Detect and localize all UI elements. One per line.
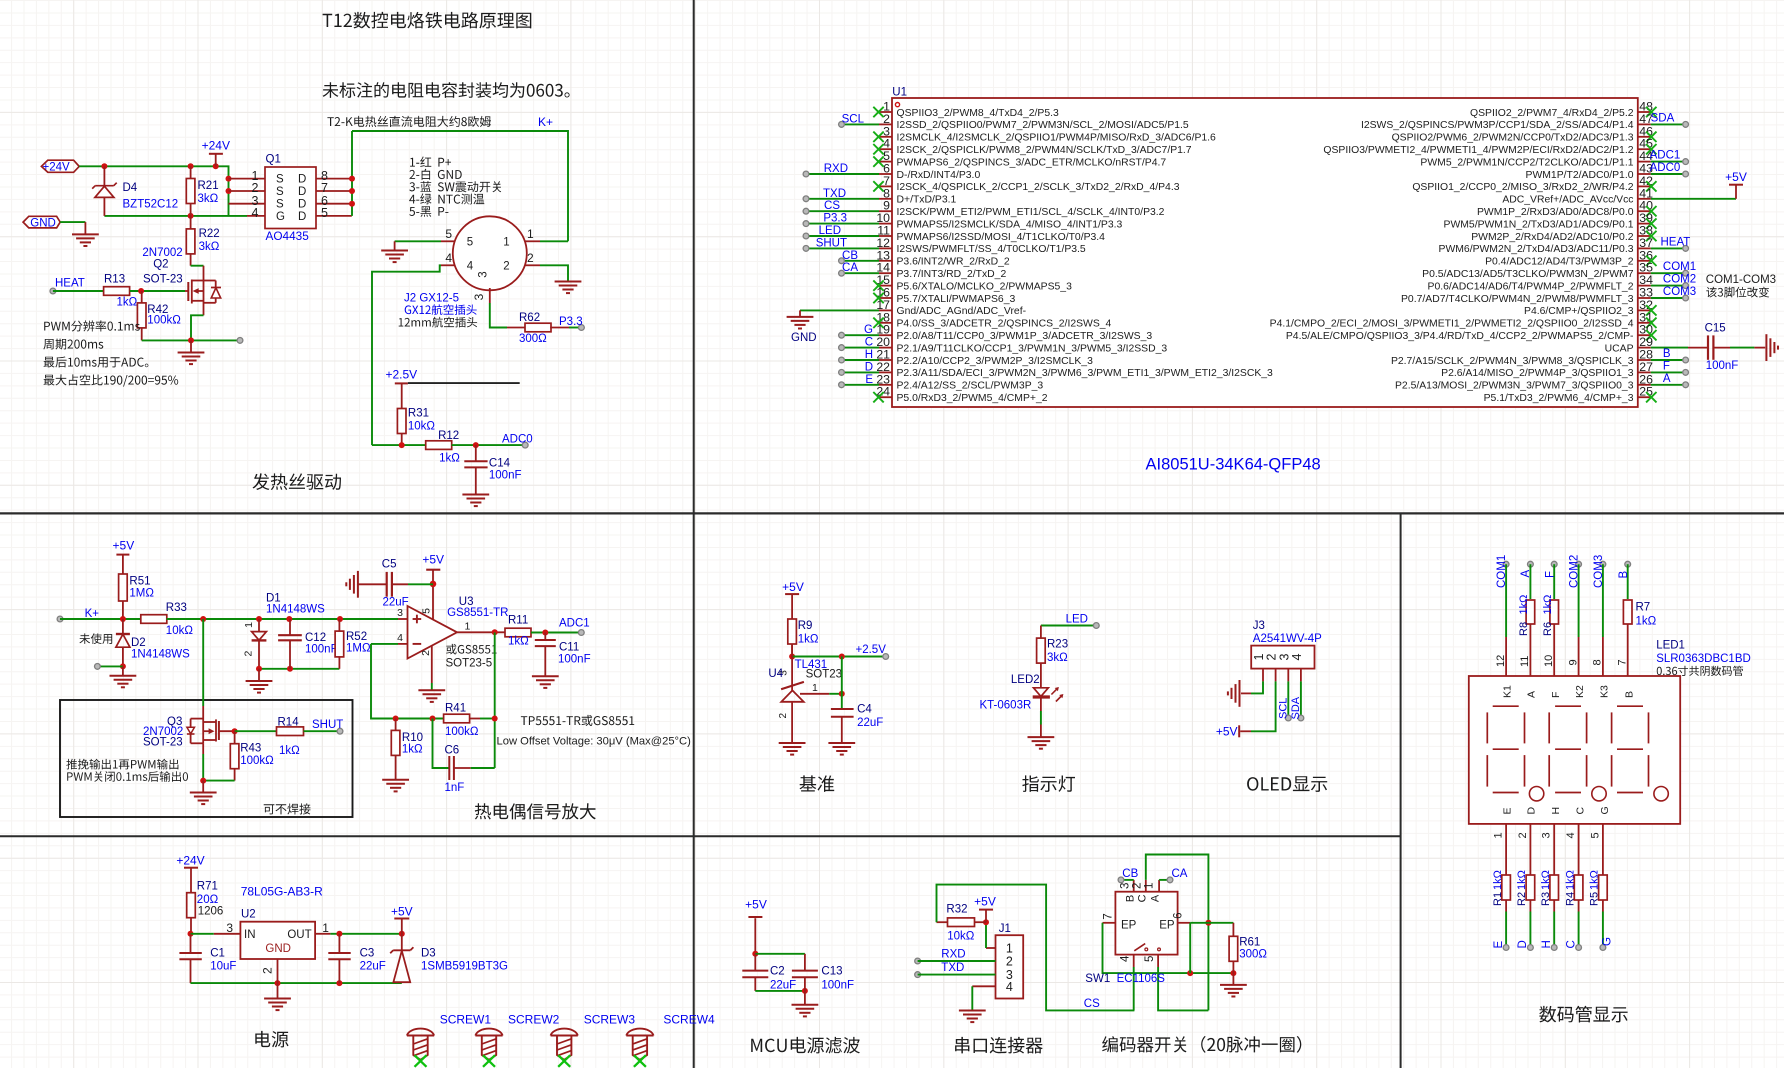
svg-text:D+/TxD/P3.1: D+/TxD/P3.1 xyxy=(897,195,957,206)
svg-text:B: B xyxy=(1623,691,1635,698)
svg-text:PWM6/PWM2N_2/TxD4/AD3/ADC11/P0: PWM6/PWM2N_2/TxD4/AD3/ADC11/P0.3 xyxy=(1439,244,1634,255)
svg-text:+24V: +24V xyxy=(202,139,230,153)
svg-text:R13: R13 xyxy=(104,274,125,286)
svg-text:C2: C2 xyxy=(770,966,785,978)
svg-text:D: D xyxy=(1526,807,1538,815)
svg-text:2: 2 xyxy=(1517,832,1529,838)
svg-text:100nF: 100nF xyxy=(489,470,522,482)
svg-text:SCREW3: SCREW3 xyxy=(584,1013,636,1027)
svg-text:SHUT: SHUT xyxy=(312,719,343,731)
svg-text:P4.6/CMP+/QSPIIO2_3: P4.6/CMP+/QSPIIO2_3 xyxy=(1524,306,1634,317)
svg-text:CB: CB xyxy=(842,250,858,262)
svg-text:Q1: Q1 xyxy=(266,154,281,166)
svg-text:3: 3 xyxy=(478,271,490,277)
svg-text:1kΩ: 1kΩ xyxy=(1564,870,1576,890)
svg-text:CA: CA xyxy=(1172,868,1188,880)
svg-text:D-/RxD/INT4/P3.0: D-/RxD/INT4/P3.0 xyxy=(897,170,981,181)
svg-text:LED1: LED1 xyxy=(1656,640,1685,652)
svg-text:P4.0/SS_3/ADCETR_2/QSPINCS_2/I: P4.0/SS_3/ADCETR_2/QSPINCS_2/I2SWS_4 xyxy=(897,319,1112,330)
svg-text:2: 2 xyxy=(503,261,509,273)
svg-text:3: 3 xyxy=(397,607,403,619)
svg-text:1kΩ: 1kΩ xyxy=(508,636,529,648)
svg-text:Gnd/ADC_AGnd/ADC_Vref-: Gnd/ADC_AGnd/ADC_Vref- xyxy=(897,306,1027,317)
svg-text:3kΩ: 3kΩ xyxy=(1047,652,1068,664)
svg-text:2: 2 xyxy=(527,251,534,265)
svg-text:R23: R23 xyxy=(1047,639,1068,651)
svg-text:C15: C15 xyxy=(1705,323,1726,335)
svg-text:CA: CA xyxy=(842,262,858,274)
svg-text:SCL: SCL xyxy=(842,113,865,125)
svg-text:+5V: +5V xyxy=(1725,170,1747,184)
svg-text:SOT23: SOT23 xyxy=(806,668,842,680)
svg-text:SLR0363DBC1BD: SLR0363DBC1BD xyxy=(1656,653,1751,665)
svg-text:R41: R41 xyxy=(445,703,466,715)
svg-text:P3.7/INT3/RD_2/TxD_2: P3.7/INT3/RD_2/TxD_2 xyxy=(897,269,1007,280)
svg-text:OUT: OUT xyxy=(287,929,311,941)
svg-text:R61: R61 xyxy=(1239,937,1260,949)
svg-text:R32: R32 xyxy=(946,904,967,916)
svg-text:78L05G-AB3-R: 78L05G-AB3-R xyxy=(241,885,323,899)
svg-text:R51: R51 xyxy=(129,576,150,588)
svg-text:P3.6/INT2/WR_2/RxD_2: P3.6/INT2/WR_2/RxD_2 xyxy=(897,257,1010,268)
svg-text:SOT23-5: SOT23-5 xyxy=(446,658,493,670)
svg-text:F: F xyxy=(1544,571,1556,578)
svg-text:P3.3: P3.3 xyxy=(559,316,583,328)
svg-text:K1: K1 xyxy=(1501,685,1513,698)
svg-text:1: 1 xyxy=(812,682,818,694)
svg-text:COM1: COM1 xyxy=(1496,555,1508,588)
svg-text:D: D xyxy=(298,199,306,211)
svg-text:COM2: COM2 xyxy=(1663,274,1696,286)
svg-text:11: 11 xyxy=(1519,656,1531,667)
svg-text:3: 3 xyxy=(1120,883,1132,889)
svg-text:R10: R10 xyxy=(402,732,423,744)
svg-text:COM1-COM3: COM1-COM3 xyxy=(1706,274,1776,286)
svg-text:+24V: +24V xyxy=(43,161,71,173)
svg-text:CS: CS xyxy=(824,200,840,212)
svg-text:4: 4 xyxy=(467,261,474,273)
svg-text:D: D xyxy=(1517,940,1529,948)
svg-text:G: G xyxy=(864,324,873,336)
svg-text:22uF: 22uF xyxy=(770,980,796,992)
svg-text:HEAT: HEAT xyxy=(1661,236,1691,248)
svg-text:12: 12 xyxy=(1495,655,1507,667)
svg-text:100nF: 100nF xyxy=(305,644,338,656)
svg-text:COM1: COM1 xyxy=(1663,261,1696,273)
svg-text:QSPIIO3/PWMETI2_4/PWMETI1_4/PW: QSPIIO3/PWMETI2_4/PWMETI1_4/PWM2P/ECI/Rx… xyxy=(1323,145,1633,156)
svg-text:LED2: LED2 xyxy=(1011,674,1040,686)
svg-text:R2: R2 xyxy=(1516,892,1528,906)
svg-text:+5V: +5V xyxy=(782,580,804,594)
svg-text:+5V: +5V xyxy=(1216,724,1238,738)
svg-text:C11: C11 xyxy=(559,642,579,654)
svg-text:E: E xyxy=(1502,807,1514,814)
svg-text:C14: C14 xyxy=(489,458,511,470)
svg-text:SCREW1: SCREW1 xyxy=(440,1013,492,1027)
svg-text:GS8551-TR: GS8551-TR xyxy=(447,607,508,619)
svg-text:3kΩ: 3kΩ xyxy=(198,193,219,205)
svg-text:5: 5 xyxy=(467,237,473,249)
svg-text:E: E xyxy=(865,374,873,386)
svg-text:BZT52C12: BZT52C12 xyxy=(123,199,179,211)
svg-text:P2.7/A15/SCLK_2/PWM4N_3/PWM8_3: P2.7/A15/SCLK_2/PWM4N_3/PWM8_3/QSPICLK_3 xyxy=(1391,356,1634,367)
svg-text:10: 10 xyxy=(1543,655,1555,667)
svg-text:TXD: TXD xyxy=(823,188,846,200)
svg-text:+5V: +5V xyxy=(391,904,413,918)
svg-text:COM3: COM3 xyxy=(1593,555,1605,588)
svg-text:PWMAPS6_2/QSPINCS_3/ADC_ETR/MC: PWMAPS6_2/QSPINCS_3/ADC_ETR/MCLKO/nRST/P… xyxy=(897,157,1167,168)
svg-text:F: F xyxy=(1663,360,1670,372)
svg-text:1SMB5919BT3G: 1SMB5919BT3G xyxy=(421,961,508,973)
svg-text:+5V: +5V xyxy=(422,553,444,567)
svg-text:E: E xyxy=(1493,941,1505,949)
svg-text:R22: R22 xyxy=(199,228,220,240)
svg-text:3kΩ: 3kΩ xyxy=(199,241,220,253)
svg-text:SCREW2: SCREW2 xyxy=(508,1013,560,1027)
svg-text:1kΩ: 1kΩ xyxy=(1516,870,1528,890)
svg-text:R43: R43 xyxy=(240,743,261,755)
svg-text:R31: R31 xyxy=(408,407,429,419)
svg-text:300Ω: 300Ω xyxy=(519,333,547,345)
svg-text:A: A xyxy=(1525,691,1537,698)
svg-text:D3: D3 xyxy=(421,948,436,960)
svg-text:GND: GND xyxy=(791,332,817,344)
svg-text:1nF: 1nF xyxy=(445,782,465,794)
svg-text:PWM5/PWM1N_2/TxD3/AD1/ADC9/P0.: PWM5/PWM1N_2/TxD3/AD1/ADC9/P0.1 xyxy=(1444,219,1634,230)
svg-text:H: H xyxy=(865,349,873,361)
svg-text:P4.1/CMPO_2/ECI_2/MOSI_3/PWMET: P4.1/CMPO_2/ECI_2/MOSI_3/PWMETI1_2/PWMET… xyxy=(1270,319,1634,330)
svg-text:1: 1 xyxy=(322,921,329,935)
svg-text:4: 4 xyxy=(1120,955,1132,962)
svg-text:D: D xyxy=(298,211,306,223)
svg-text:3: 3 xyxy=(472,293,486,300)
svg-text:1kΩ: 1kΩ xyxy=(402,743,423,755)
svg-text:S: S xyxy=(276,174,284,186)
svg-text:5: 5 xyxy=(321,206,328,220)
svg-text:P0.6/ADC14/AD6/T4/PWM4P_2/PWMF: P0.6/ADC14/AD6/T4/PWM4P_2/PWMFLT_2 xyxy=(1428,281,1634,292)
svg-text:R9: R9 xyxy=(798,620,813,632)
svg-text:A: A xyxy=(1149,894,1161,902)
svg-text:R1: R1 xyxy=(1492,892,1504,906)
svg-text:G: G xyxy=(1602,937,1614,946)
svg-text:EP: EP xyxy=(1159,920,1175,932)
svg-text:8: 8 xyxy=(1592,659,1604,665)
svg-text:22uF: 22uF xyxy=(360,960,386,972)
svg-text:P2.4/A12/SS_2/SCL/PWM3P_3: P2.4/A12/SS_2/SCL/PWM3P_3 xyxy=(897,381,1044,392)
svg-text:J2 GX12-5: J2 GX12-5 xyxy=(404,293,459,305)
svg-text:P5.1/TxD3_2/PWM6_4/CMP+_3: P5.1/TxD3_2/PWM6_4/CMP+_3 xyxy=(1484,393,1634,404)
svg-text:22uF: 22uF xyxy=(857,717,883,729)
svg-text:C3: C3 xyxy=(360,948,375,960)
svg-text:1: 1 xyxy=(1493,832,1505,838)
svg-text:1: 1 xyxy=(1144,883,1156,889)
svg-text:AO4435: AO4435 xyxy=(266,229,310,243)
svg-text:SCREW4: SCREW4 xyxy=(663,1013,715,1027)
svg-text:D4: D4 xyxy=(123,182,138,194)
svg-text:PWMAPS6/I2SSD/MOSI_4/T1CLKO/T0: PWMAPS6/I2SSD/MOSI_4/T1CLKO/T0/P3.4 xyxy=(897,232,1106,243)
svg-text:D2: D2 xyxy=(131,637,146,649)
svg-text:1kΩ: 1kΩ xyxy=(1636,616,1657,628)
svg-text:I2SSD_2/QSPIIO0/PWM7_2/PWM3N/S: I2SSD_2/QSPIIO0/PWM7_2/PWM3N/SCL_2/MOSI/… xyxy=(897,120,1189,131)
svg-text:GND: GND xyxy=(265,943,291,955)
svg-text:PWM5_2/PWM1N/CCP2/T2CLKO/ADC1/: PWM5_2/PWM1N/CCP2/T2CLKO/ADC1/P1.1 xyxy=(1420,157,1633,168)
svg-text:3: 3 xyxy=(226,921,233,935)
svg-text:R14: R14 xyxy=(278,717,300,729)
svg-text:1: 1 xyxy=(243,622,255,628)
svg-text:C5: C5 xyxy=(382,558,397,570)
svg-text:LED: LED xyxy=(1066,614,1088,626)
svg-text:4: 4 xyxy=(252,206,259,220)
svg-text:1: 1 xyxy=(527,227,534,241)
svg-text:HEAT: HEAT xyxy=(55,278,85,290)
svg-text:R52: R52 xyxy=(346,631,367,643)
svg-text:Low Offset Voltage: 30μV (Max@: Low Offset Voltage: 30μV (Max@25°C) xyxy=(497,736,692,748)
svg-text:C6: C6 xyxy=(445,745,460,757)
svg-text:D: D xyxy=(298,186,306,198)
svg-text:I2SCK/PWM_ETI2/PWM_ETI1/SCL_4/: I2SCK/PWM_ETI2/PWM_ETI1/SCL_4/SCLK_4/INT… xyxy=(897,207,1165,218)
svg-text:A2541WV-4P: A2541WV-4P xyxy=(1253,633,1322,645)
svg-text:100nF: 100nF xyxy=(821,980,854,992)
svg-text:G: G xyxy=(276,211,285,223)
svg-text:SW1: SW1 xyxy=(1085,973,1110,985)
svg-text:R7: R7 xyxy=(1636,602,1651,614)
svg-text:1MΩ: 1MΩ xyxy=(129,588,154,600)
svg-text:1kΩ: 1kΩ xyxy=(117,297,138,309)
svg-text:P4.5/ALE/CMPO/QSPIIO3_3/P4.4/R: P4.5/ALE/CMPO/QSPIIO3_3/P4.4/RD/TxD_4/CC… xyxy=(1286,331,1634,342)
svg-text:3: 3 xyxy=(1541,832,1553,838)
svg-text:ADC1: ADC1 xyxy=(1650,150,1681,162)
svg-text:300Ω: 300Ω xyxy=(1239,949,1267,961)
svg-text:2: 2 xyxy=(261,967,275,974)
svg-text:ADC0: ADC0 xyxy=(502,433,533,445)
svg-text:R5: R5 xyxy=(1589,892,1601,906)
svg-text:TXD: TXD xyxy=(941,962,964,974)
svg-text:4: 4 xyxy=(1290,653,1304,660)
svg-text:PWM2P_2/RxD4/AD2/ADC10/P0.2: PWM2P_2/RxD4/AD2/ADC10/P0.2 xyxy=(1471,232,1633,243)
svg-text:CS: CS xyxy=(1084,998,1100,1010)
svg-text:J1: J1 xyxy=(999,923,1011,935)
svg-text:I2SWS_2/QSPINCS/PWM3P/CCP1/SDA: I2SWS_2/QSPINCS/PWM3P/CCP1/SDA_2/SS/ADC4… xyxy=(1361,120,1634,131)
svg-text:D: D xyxy=(865,361,873,373)
svg-text:COM3: COM3 xyxy=(1663,286,1696,298)
svg-text:5: 5 xyxy=(1589,832,1601,838)
svg-text:+24V: +24V xyxy=(176,853,204,867)
svg-text:Q2: Q2 xyxy=(153,259,168,271)
svg-text:10kΩ: 10kΩ xyxy=(166,625,194,637)
svg-text:SOT-23: SOT-23 xyxy=(143,273,183,285)
svg-text:4: 4 xyxy=(445,251,452,265)
svg-text:+5V: +5V xyxy=(745,897,767,911)
svg-text:P0.7/AD7/T4CLKO/PWM4N_2/PWM8/P: P0.7/AD7/T4CLKO/PWM4N_2/PWM8/PWMFLT_3 xyxy=(1401,294,1634,305)
svg-text:9: 9 xyxy=(1567,659,1579,665)
svg-text:RXD: RXD xyxy=(824,163,848,175)
svg-text:P3.3: P3.3 xyxy=(823,213,847,225)
svg-text:ADC1: ADC1 xyxy=(559,618,590,630)
svg-text:7: 7 xyxy=(1102,913,1114,919)
svg-text:SDA: SDA xyxy=(1290,696,1302,719)
svg-text:U2: U2 xyxy=(241,909,256,921)
svg-text:QSPIIO2/PWM6_2/PWM2N/CCP0/TxD2: QSPIIO2/PWM6_2/PWM2N/CCP0/TxD2/ADC3/P1.3 xyxy=(1392,133,1634,144)
svg-text:ADC0: ADC0 xyxy=(1650,162,1681,174)
svg-text:C: C xyxy=(1137,894,1149,902)
svg-text:AI8051U-34K64-QFP48: AI8051U-34K64-QFP48 xyxy=(1146,456,1321,474)
svg-text:C13: C13 xyxy=(821,966,842,978)
svg-text:P0.5/ADC13/AD5/T3CLKO/PWM3N_2/: P0.5/ADC13/AD5/T3CLKO/PWM3N_2/PWM7 xyxy=(1422,269,1634,280)
svg-text:R11: R11 xyxy=(508,615,528,627)
svg-text:R3: R3 xyxy=(1540,892,1552,906)
svg-text:B: B xyxy=(1618,571,1630,579)
svg-text:H: H xyxy=(1541,940,1553,948)
svg-text:1kΩ: 1kΩ xyxy=(1492,870,1504,890)
svg-text:2N7002: 2N7002 xyxy=(142,247,182,259)
svg-text:QSPIIO2_2/PWM7_4/RxD4_2/P5.2: QSPIIO2_2/PWM7_4/RxD4_2/P5.2 xyxy=(1470,108,1634,119)
svg-text:SCL: SCL xyxy=(1278,698,1290,719)
svg-text:1: 1 xyxy=(1006,942,1013,956)
svg-text:4: 4 xyxy=(1565,832,1577,838)
svg-text:P2.1/A9/T11CLKO/CCP1_3/PWM1N_3: P2.1/A9/T11CLKO/CCP1_3/PWM1N_3/PWM5_3/I2… xyxy=(897,343,1168,354)
svg-text:PWM1P_2/RxD3/AD0/ADC8/P0.0: PWM1P_2/RxD3/AD0/ADC8/P0.0 xyxy=(1477,207,1634,218)
svg-text:5: 5 xyxy=(1144,956,1156,962)
svg-text:R8: R8 xyxy=(1518,622,1530,636)
svg-text:PWM1P/T2/ADC0/P1.0: PWM1P/T2/ADC0/P1.0 xyxy=(1526,170,1634,181)
svg-text:100kΩ: 100kΩ xyxy=(240,755,274,767)
svg-text:5: 5 xyxy=(445,227,452,241)
svg-text:COM2: COM2 xyxy=(1568,555,1580,588)
svg-text:2: 2 xyxy=(778,712,789,718)
svg-text:ADC_VRef+/ADC_AVcc/Vcc: ADC_VRef+/ADC_AVcc/Vcc xyxy=(1502,195,1633,206)
svg-text:+5V: +5V xyxy=(974,895,996,909)
svg-text:QSPIIO3_2/PWM8_4/TxD4_2/P5.3: QSPIIO3_2/PWM8_4/TxD4_2/P5.3 xyxy=(897,108,1060,119)
svg-text:C1: C1 xyxy=(210,948,225,960)
svg-text:1kΩ: 1kΩ xyxy=(439,453,460,465)
svg-text:+5V: +5V xyxy=(113,539,135,553)
svg-text:S: S xyxy=(276,199,284,211)
svg-text:C12: C12 xyxy=(305,632,326,644)
svg-text:I2SCK_4/QSPICLK_2/CCP1_2/SCLK_: I2SCK_4/QSPICLK_2/CCP1_2/SCLK_3/TxD2_2/R… xyxy=(897,182,1180,193)
svg-text:10uF: 10uF xyxy=(210,960,236,972)
svg-text:A: A xyxy=(1663,373,1671,385)
svg-text:1N4148WS: 1N4148WS xyxy=(266,604,325,616)
svg-text:P2.2/A10/CCP2_3/PWM2P_3/I2SMCL: P2.2/A10/CCP2_3/PWM2P_3/I2SMCLK_3 xyxy=(897,356,1094,367)
svg-text:P2.0/A8/T11/CCP0_3/PWM1P_3/ADC: P2.0/A8/T11/CCP0_3/PWM1P_3/ADCETR_3/I2SW… xyxy=(897,331,1153,342)
svg-text:2: 2 xyxy=(242,651,254,657)
svg-text:1MΩ: 1MΩ xyxy=(346,643,371,655)
svg-text:SOT-23: SOT-23 xyxy=(143,737,183,749)
svg-text:F: F xyxy=(1550,692,1562,698)
svg-text:P5.7/XTALI/PWMAPS6_3: P5.7/XTALI/PWMAPS6_3 xyxy=(897,294,1016,305)
svg-text:EC1106S: EC1106S xyxy=(1117,973,1166,985)
svg-text:UCAP: UCAP xyxy=(1605,343,1634,354)
svg-text:100nF: 100nF xyxy=(558,654,591,666)
svg-text:C: C xyxy=(865,337,873,349)
svg-text:K+: K+ xyxy=(538,115,553,129)
svg-text:P5.0/RxD3_2/PWM5_4/CMP+_2: P5.0/RxD3_2/PWM5_4/CMP+_2 xyxy=(897,393,1048,404)
svg-text:R71: R71 xyxy=(197,881,218,893)
svg-text:SDA: SDA xyxy=(1651,112,1675,124)
svg-text:10kΩ: 10kΩ xyxy=(408,421,436,433)
svg-text:+2.5V: +2.5V xyxy=(856,644,887,656)
svg-text:R4: R4 xyxy=(1564,892,1576,906)
svg-text:4: 4 xyxy=(397,632,403,644)
svg-text:100kΩ: 100kΩ xyxy=(147,315,181,327)
svg-text:I2SCK_2/QSPICLK/PWM8_2/PWM4N/S: I2SCK_2/QSPICLK/PWM8_2/PWM4N/SCLK/TxD_3/… xyxy=(897,145,1192,156)
svg-text:C: C xyxy=(1575,807,1587,815)
svg-text:U1: U1 xyxy=(892,87,907,99)
svg-text:R12: R12 xyxy=(438,430,459,442)
svg-text:1kΩ: 1kΩ xyxy=(1540,870,1552,890)
svg-text:B: B xyxy=(1663,348,1671,360)
svg-text:S: S xyxy=(276,186,284,198)
svg-text:1: 1 xyxy=(465,620,471,632)
svg-text:RXD: RXD xyxy=(941,949,965,961)
svg-text:R33: R33 xyxy=(166,602,187,614)
svg-text:2: 2 xyxy=(420,650,432,656)
svg-text:H: H xyxy=(1550,807,1562,815)
svg-text:+2.5V: +2.5V xyxy=(385,368,417,382)
svg-text:1: 1 xyxy=(503,237,509,249)
svg-text:LED: LED xyxy=(819,225,841,237)
svg-text:1206: 1206 xyxy=(198,906,224,918)
svg-text:K2: K2 xyxy=(1574,685,1586,698)
svg-text:P2.3/A11/SDA/ECI_3/PWM2N_3/PWM: P2.3/A11/SDA/ECI_3/PWM2N_3/PWM6_3/PWM_ET… xyxy=(897,368,1274,379)
svg-text:10kΩ: 10kΩ xyxy=(947,931,975,943)
svg-text:EP: EP xyxy=(1121,920,1137,932)
svg-text:100kΩ: 100kΩ xyxy=(445,726,479,738)
svg-text:5: 5 xyxy=(421,608,433,614)
svg-text:1kΩ: 1kΩ xyxy=(1589,870,1601,890)
svg-text:D: D xyxy=(298,174,306,186)
svg-text:P2.6/A14/MISO_2/PWM4P_3/QSPIIO: P2.6/A14/MISO_2/PWM4P_3/QSPIIO1_3 xyxy=(1441,368,1634,379)
svg-text:1kΩ: 1kΩ xyxy=(1542,595,1554,615)
svg-text:C: C xyxy=(1565,940,1577,948)
svg-text:P0.4/ADC12/AD4/T3/PWM3P_2: P0.4/ADC12/AD4/T3/PWM3P_2 xyxy=(1485,257,1634,268)
svg-text:K3: K3 xyxy=(1599,685,1611,698)
svg-text:100nF: 100nF xyxy=(1706,360,1739,372)
svg-text:C4: C4 xyxy=(857,704,872,716)
svg-text:1N4148WS: 1N4148WS xyxy=(131,649,190,661)
svg-text:R21: R21 xyxy=(198,180,219,192)
svg-text:J3: J3 xyxy=(1253,620,1265,632)
svg-text:2: 2 xyxy=(1132,883,1144,889)
svg-text:KT-0603R: KT-0603R xyxy=(980,700,1032,712)
svg-text:CB: CB xyxy=(1122,868,1138,880)
svg-text:SHUT: SHUT xyxy=(816,237,847,249)
svg-text:R62: R62 xyxy=(519,312,540,324)
svg-text:1kΩ: 1kΩ xyxy=(798,634,819,646)
svg-text:1kΩ: 1kΩ xyxy=(1518,595,1530,615)
svg-text:GND: GND xyxy=(30,217,56,229)
svg-text:P5.6/XTALO/MCLKO_2/PWMAPS5_3: P5.6/XTALO/MCLKO_2/PWMAPS5_3 xyxy=(897,281,1073,292)
svg-text:22uF: 22uF xyxy=(383,597,409,609)
svg-text:IN: IN xyxy=(244,929,256,941)
svg-text:1kΩ: 1kΩ xyxy=(279,745,300,757)
svg-text:QSPIIO1_2/CCP0_2/MISO_3/RxD2_2: QSPIIO1_2/CCP0_2/MISO_3/RxD2_2/WR/P4.2 xyxy=(1412,182,1633,193)
svg-text:U4: U4 xyxy=(768,668,783,680)
svg-text:A: A xyxy=(1520,570,1532,578)
svg-text:B: B xyxy=(1124,895,1136,902)
svg-text:G: G xyxy=(1599,806,1611,814)
svg-text:I2SWS/PWMFLT/SS_4/T0CLKO/T1/P3: I2SWS/PWMFLT/SS_4/T0CLKO/T1/P3.5 xyxy=(897,244,1086,255)
svg-text:7: 7 xyxy=(1616,659,1628,665)
svg-text:6: 6 xyxy=(1172,912,1184,918)
svg-text:P2.5/A13/MOSI_2/PWM3N_3/PWM7_3: P2.5/A13/MOSI_2/PWM3N_3/PWM7_3/QSPIIO0_3 xyxy=(1395,381,1634,392)
svg-text:I2SMCLK_4/I2SMCLK_2/QSPIIO1/PW: I2SMCLK_4/I2SMCLK_2/QSPIIO1/PWM4P/MISO/R… xyxy=(897,133,1217,144)
svg-text:20Ω: 20Ω xyxy=(197,894,219,906)
svg-text:R6: R6 xyxy=(1542,622,1554,636)
svg-text:PWMAPS5/I2SMCLK/SDA_4/MISO_4/I: PWMAPS5/I2SMCLK/SDA_4/MISO_4/INT1/P3.3 xyxy=(897,219,1123,230)
svg-text:4: 4 xyxy=(1006,980,1013,994)
svg-text:2: 2 xyxy=(1006,955,1013,969)
